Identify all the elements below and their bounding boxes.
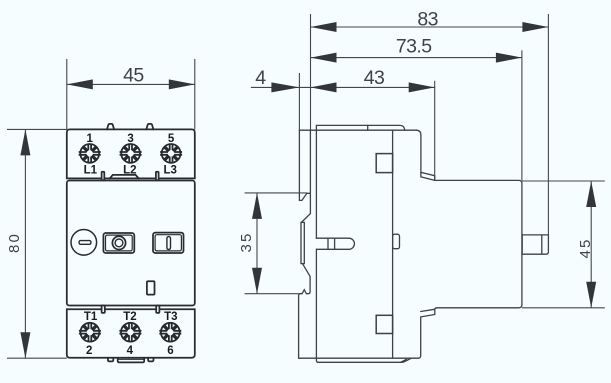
label 5 — [168, 133, 175, 145]
terminal screw 2 — [79, 323, 101, 342]
svg-text:45: 45 — [123, 65, 144, 87]
dim line 43 and 4 — [251, 86, 435, 88]
dim text 35 — [238, 231, 255, 252]
body bottom — [299, 357, 419, 359]
mid body — [67, 181, 195, 306]
svg-text:45: 45 — [577, 237, 594, 258]
svg-text:T1: T1 — [84, 311, 98, 323]
arrow 45r up — [586, 181, 596, 207]
dim line 73.5 — [311, 57, 522, 59]
dim text 80 — [6, 232, 23, 253]
label T2 — [123, 311, 136, 323]
dim line 80 — [24, 129, 26, 358]
dim line 45 top — [67, 83, 195, 85]
arrow 35 up — [252, 193, 262, 219]
rear screw terminal — [522, 235, 548, 254]
arrow 45 left — [67, 79, 93, 89]
svg-text:73.5: 73.5 — [396, 35, 432, 57]
L-row tab right — [156, 172, 159, 181]
arrow 43 left — [311, 82, 337, 92]
label 3 — [127, 133, 133, 145]
dim text 4 — [255, 67, 266, 89]
rotary knob — [71, 230, 97, 256]
ext line 4 left — [298, 73, 300, 130]
svg-text:1: 1 — [86, 133, 93, 145]
din clip spring slot — [301, 222, 304, 263]
front right edge — [417, 130, 421, 177]
ext line 45 right top — [522, 180, 605, 182]
interior vertical line — [392, 130, 394, 358]
ext line 80 bottom — [7, 357, 67, 359]
mid tab — [393, 234, 400, 249]
ext line front top right — [194, 59, 196, 129]
rear block — [435, 180, 522, 307]
label 6 — [167, 345, 173, 357]
svg-text:6: 6 — [167, 345, 173, 357]
arrow 73.5 left — [311, 53, 337, 63]
bottom terminal block — [67, 309, 195, 358]
bottom U-tab right — [148, 358, 153, 362]
front view top terminal block — [67, 129, 195, 178]
svg-text:L3: L3 — [163, 164, 176, 176]
arrow 83 right — [522, 22, 548, 32]
ext line 45 right bottom — [522, 307, 605, 309]
label 2 — [86, 345, 92, 357]
ext line 35 top — [245, 192, 307, 194]
ext line 73.5 right — [521, 50, 523, 180]
svg-text:80: 80 — [6, 232, 23, 253]
ext line 83 left — [310, 14, 312, 130]
top square slot — [376, 154, 392, 173]
ext line 83 right — [547, 14, 549, 235]
top mounting bump left — [107, 124, 114, 129]
reset slot — [147, 281, 155, 294]
T-row tab left — [102, 306, 105, 313]
svg-text:4: 4 — [255, 67, 266, 89]
label T3 — [164, 311, 177, 323]
arrow 73.5 right — [496, 53, 522, 63]
svg-text:L2: L2 — [123, 164, 136, 176]
svg-text:T3: T3 — [164, 311, 177, 323]
top chamfer step — [421, 172, 435, 180]
label 1 — [86, 133, 93, 145]
arrow 80 up — [20, 129, 30, 155]
raised center trapezoid — [110, 175, 139, 179]
arrow 4 right — [271, 82, 299, 92]
T-row tab right — [156, 306, 159, 313]
svg-text:L1: L1 — [84, 164, 98, 176]
terminal screw 3 — [120, 144, 142, 163]
arrow 45 right — [169, 79, 195, 89]
top plateau — [316, 125, 405, 130]
label L3 — [163, 164, 176, 176]
dim text 45 — [123, 65, 144, 87]
label L1 — [84, 164, 98, 176]
L-row tab left — [102, 172, 105, 181]
arrow 80 down — [20, 332, 30, 358]
bottom square slot — [376, 315, 392, 333]
bottom U-tab left — [108, 358, 113, 362]
terminal screw 5 — [160, 144, 182, 163]
dim text 73.5 — [396, 35, 432, 57]
terminal screw 1 — [79, 144, 101, 163]
svg-text:83: 83 — [417, 9, 438, 31]
svg-text:5: 5 — [168, 133, 175, 145]
svg-text:35: 35 — [238, 231, 255, 252]
switch window — [153, 233, 184, 253]
label 4 — [127, 345, 134, 357]
terminal screw 4 — [119, 323, 141, 342]
svg-text:2: 2 — [86, 345, 92, 357]
ext line 80 top — [7, 128, 67, 130]
svg-text:4: 4 — [127, 345, 134, 357]
bottom center tab — [118, 358, 145, 363]
top mounting bump right — [146, 124, 153, 129]
label L2 — [123, 164, 136, 176]
ledge top line — [299, 129, 416, 131]
ext line 35 bottom — [245, 293, 299, 295]
svg-text:43: 43 — [364, 67, 385, 89]
din clip profile — [299, 130, 311, 358]
left body edge — [316, 130, 318, 362]
dim text 83 — [417, 9, 438, 31]
dim line 83 — [311, 26, 549, 28]
release slot — [316, 238, 354, 249]
dim line 45 right — [590, 181, 592, 308]
dim line 35 — [256, 193, 258, 294]
dim text 43 — [364, 67, 385, 89]
ext line front top left — [66, 59, 68, 129]
test button window — [103, 233, 134, 253]
bottom lip — [318, 358, 411, 362]
ext line 43 right — [434, 81, 436, 181]
svg-text:T2: T2 — [123, 311, 136, 323]
arrow 45r down — [586, 282, 596, 308]
label T1 — [84, 311, 98, 323]
arrow 43 right — [409, 82, 435, 92]
svg-text:3: 3 — [127, 133, 133, 145]
arrow 35 down — [252, 268, 262, 294]
arrow 83 left — [311, 22, 337, 32]
bottom chamfer step — [418, 308, 437, 358]
terminal screw 6 — [159, 323, 181, 342]
dim text 45 right — [577, 237, 594, 258]
din clip claw — [299, 130, 310, 200]
